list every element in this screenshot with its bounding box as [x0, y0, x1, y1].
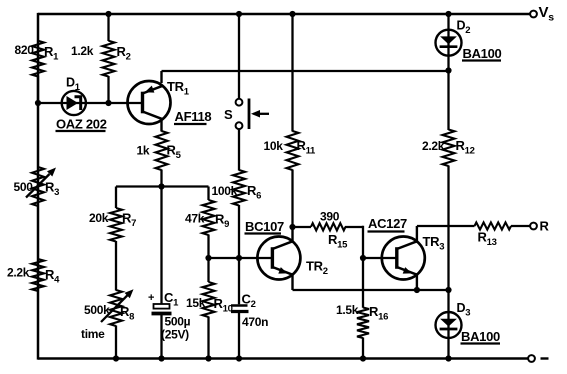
label R: [540, 219, 550, 234]
label OAZ 202: [56, 117, 107, 132]
wire C2 top: [238, 258, 240, 304]
node R2-D1-TR1 junction: [105, 100, 111, 106]
label R7: [122, 211, 136, 230]
label R1: [44, 44, 59, 63]
node emitter-D3 junction: [445, 287, 451, 293]
svg-text:AF118: AF118: [175, 109, 212, 124]
svg-text:R: R: [540, 219, 550, 234]
resistor R15: [293, 223, 364, 230]
node C2 ground: [236, 355, 242, 361]
label BC107: [245, 219, 285, 234]
node Vs terminal: [530, 11, 537, 18]
node R2 top junction: [105, 11, 111, 17]
svg-text:20k: 20k: [89, 211, 109, 225]
transistor TR2: [257, 227, 300, 290]
label R16: [369, 304, 388, 323]
label 390: [320, 210, 340, 224]
label 500k: [84, 303, 110, 317]
wire D2 bottom: [447, 55, 449, 70]
node D3 ground: [445, 355, 451, 361]
resistor R8 variable: [101, 289, 134, 358]
node R9-R10 junction: [205, 255, 211, 261]
wire TR1 emitter rail: [162, 70, 449, 72]
label AC127: [368, 216, 408, 232]
wire TR3 base: [363, 257, 397, 259]
wire D3 top: [447, 290, 449, 313]
capacitor C2: [231, 306, 249, 359]
label C2: [242, 292, 256, 311]
node R8 ground: [113, 355, 119, 361]
resistor R6: [233, 170, 245, 258]
wire S lower: [238, 129, 240, 170]
node R6-C2 junction: [236, 255, 242, 261]
wire bottom rail: [38, 357, 528, 360]
label R8: [120, 304, 134, 323]
transistor TR1: [128, 71, 171, 132]
svg-text:390: 390: [320, 210, 340, 224]
svg-text:S: S: [224, 107, 233, 122]
wire D1 cathode: [86, 102, 143, 104]
label 20k: [89, 211, 109, 225]
label 1.5k: [336, 303, 359, 317]
wire TR3 collector line: [417, 225, 475, 227]
svg-text:BA100: BA100: [463, 46, 502, 61]
svg-text:OAZ 202: OAZ 202: [56, 117, 107, 132]
node S top junction: [236, 11, 242, 17]
svg-text:BC107: BC107: [245, 219, 284, 234]
wire base junction: [209, 257, 274, 259]
diode D1: [62, 91, 86, 115]
svg-text:820: 820: [15, 43, 35, 57]
capacitor C1: [152, 304, 172, 359]
resistor R13: [475, 222, 531, 229]
label 470n: [242, 315, 268, 329]
label R3: [45, 180, 59, 199]
label D2: [457, 19, 471, 37]
label R5: [167, 143, 182, 162]
label S: [224, 107, 233, 122]
label 820: [15, 43, 35, 57]
svg-text:(25V): (25V): [161, 328, 189, 342]
label BA100 D2: [462, 46, 502, 61]
resistor R1: [32, 41, 44, 103]
wire left rail: [37, 13, 40, 360]
svg-text:BA100: BA100: [461, 329, 500, 344]
label R6: [247, 183, 261, 202]
label 25V: [161, 328, 189, 342]
label 1.2k: [71, 44, 94, 58]
svg-text:AC127: AC127: [368, 216, 407, 231]
resistor R11: [287, 14, 299, 227]
wire D1 anode: [38, 102, 63, 104]
label time: [81, 327, 105, 341]
label 500: [14, 180, 34, 194]
node R output terminal: [530, 223, 537, 230]
wire R7-R5-R9: [116, 185, 209, 187]
svg-text:47k: 47k: [185, 212, 205, 226]
label D1: [66, 76, 81, 94]
label 1k: [137, 144, 150, 158]
label plus: [148, 292, 154, 304]
node R11-R15-TR2 junction: [289, 224, 295, 230]
node R5-C1 junction: [158, 183, 164, 189]
resistor R2: [103, 14, 115, 103]
label AF118: [174, 109, 211, 124]
wire C1 top: [160, 187, 162, 305]
svg-text:+: +: [148, 292, 154, 304]
node negative terminal: [528, 355, 535, 362]
node R11 top junction: [289, 11, 295, 17]
switch S: [236, 99, 269, 130]
svg-text:500µ: 500µ: [165, 315, 191, 329]
node R16 ground: [360, 355, 366, 361]
label R15: [328, 232, 348, 251]
resistor R9: [203, 187, 215, 259]
node D2 top junction: [445, 11, 451, 17]
transistor TR3: [382, 226, 425, 290]
label R11: [297, 138, 317, 157]
wire emitter rail: [293, 289, 449, 291]
label minus: [541, 357, 549, 359]
diode D2: [436, 30, 462, 56]
label 15k: [186, 296, 206, 310]
wire D3 bottom: [447, 338, 449, 359]
svg-text:100k: 100k: [212, 184, 238, 198]
resistor R5: [156, 131, 168, 187]
svg-text:2.2k: 2.2k: [422, 139, 445, 153]
node R10 ground: [205, 355, 211, 361]
node D2-R12 junction: [445, 67, 451, 73]
svg-text:1.2k: 1.2k: [71, 44, 94, 58]
resistor R7: [110, 187, 122, 291]
svg-text:time: time: [81, 327, 105, 341]
svg-text:500: 500: [14, 180, 34, 194]
label 2.2k R12: [422, 139, 445, 153]
label R13: [478, 230, 497, 249]
label 500u: [165, 315, 191, 329]
label TR3: [423, 234, 445, 253]
label C1: [164, 290, 179, 309]
svg-text:2.2k: 2.2k: [7, 266, 30, 280]
label 2.2k R4: [7, 266, 30, 280]
resistor R12: [443, 71, 455, 291]
label R4: [45, 267, 60, 286]
label BA100 D3: [461, 329, 501, 344]
node TR3 base junction: [360, 255, 366, 261]
svg-text:1.5k: 1.5k: [336, 303, 359, 317]
label 100k: [212, 184, 238, 198]
label R9: [215, 212, 229, 231]
wire R15 to R16: [362, 226, 364, 308]
svg-text:15k: 15k: [186, 296, 206, 310]
resistor R10: [203, 258, 215, 359]
resistor R4: [32, 259, 44, 291]
label R10: [214, 296, 233, 315]
wire D2 top: [447, 14, 449, 30]
node C1 ground: [158, 355, 164, 361]
label 10k: [264, 139, 284, 153]
diode D3: [436, 312, 462, 338]
node left rail D1 junction: [35, 100, 41, 106]
label TR2: [306, 259, 328, 278]
wire top supply rail: [38, 13, 530, 16]
node TR3 emitter junction: [414, 287, 420, 293]
svg-text:500k: 500k: [84, 303, 110, 317]
label TR1: [167, 79, 190, 98]
resistor R3 variable: [26, 167, 56, 206]
svg-text:470n: 470n: [242, 315, 268, 329]
label R2: [117, 44, 131, 63]
resistor R16: [357, 308, 369, 359]
label Vs: [539, 4, 555, 24]
svg-text:1k: 1k: [137, 144, 150, 158]
label R12: [456, 138, 475, 157]
wire S upper: [238, 14, 240, 99]
label 47k: [185, 212, 205, 226]
svg-text:10k: 10k: [264, 139, 284, 153]
label D3: [457, 301, 471, 319]
